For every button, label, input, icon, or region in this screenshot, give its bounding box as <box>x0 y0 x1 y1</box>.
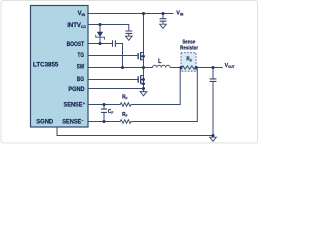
svg-text:TG: TG <box>78 52 84 59</box>
svg-text:PGND: PGND <box>68 87 84 93</box>
svg-text:SGND: SGND <box>36 119 54 125</box>
svg-text:Resistor: Resistor <box>180 45 198 52</box>
svg-text:BG: BG <box>77 77 84 84</box>
svg-text:SW: SW <box>77 64 85 71</box>
svg-text:BOOST: BOOST <box>67 42 85 49</box>
svg-text:LTC3855: LTC3855 <box>33 61 59 68</box>
svg-text:L: L <box>158 59 162 65</box>
svg-text:SENSE−: SENSE− <box>62 118 84 126</box>
svg-text:SENSE+: SENSE+ <box>64 101 86 109</box>
